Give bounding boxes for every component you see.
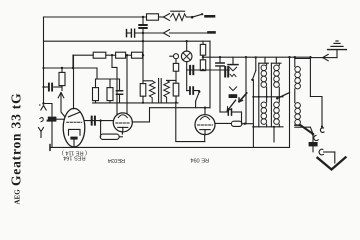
- wire x210 drop: [209, 41, 211, 108]
- antenna/earth symbol top right: [328, 49, 347, 51]
- V3 grid dashes: [198, 124, 213, 126]
- tube V1 RES164 (oval): [63, 108, 85, 147]
- winding L5b (loops): [295, 103, 301, 125]
- switch S1: [191, 16, 194, 19]
- arrow (variable): [227, 100, 235, 111]
- IF core: [159, 79, 162, 103]
- wire step x112-x117 to tube2: [112, 55, 117, 115]
- wire x176 column: [175, 59, 177, 83]
- wire x176 down to tube3 cathode: [175, 96, 177, 103]
- resistor R5: [132, 52, 143, 58]
- winding L3b (loops): [278, 63, 280, 65]
- capacitor C5: [116, 91, 122, 95]
- node H4 x288.5: [288, 56, 290, 58]
- svg-text:RE034: RE034: [108, 157, 125, 163]
- wire row55 left leg: [72, 55, 74, 68]
- wire corner x97: [96, 68, 98, 79]
- node L3 x143: [142, 102, 144, 104]
- V2 grid dashes: [116, 122, 130, 124]
- capacitor C8 (filled): [190, 66, 193, 74]
- title AEG Geatron 33tG: [9, 93, 24, 205]
- hook contacts: [314, 135, 318, 140]
- node x100.6: [99, 119, 101, 121]
- node H4 x203: [202, 56, 204, 58]
- wire bottom bus y147.4: [50, 146, 290, 148]
- wire H5 y70: [187, 69, 230, 71]
- wire x127 to tube2: [126, 55, 128, 114]
- capacitor C2 (horizontal): [131, 29, 134, 37]
- node H1/C1 junction: [142, 16, 144, 18]
- legs lower: [259, 97, 272, 127]
- wire bus to C4: [44, 104, 53, 117]
- V3 top cup: [200, 117, 209, 120]
- node H3 x143: [142, 40, 144, 42]
- resistor R7: [107, 88, 113, 101]
- arrow terminal A2: [164, 30, 170, 37]
- antenna coil block legs: [295, 58, 311, 60]
- wire V1 anode to tube2 grid: [85, 120, 114, 122]
- lamp X1: [186, 41, 188, 51]
- node y107.7 x205: [204, 107, 206, 109]
- wire C4 to V1 grid: [56, 118, 64, 120]
- V3 cathode: [200, 129, 210, 131]
- wire top feed x73 into V1: [73, 55, 75, 109]
- resistor R15 (cathode, rounded): [100, 134, 119, 139]
- wire column x246: [245, 57, 247, 124]
- node H4 x294.8: [294, 56, 296, 58]
- wire bottom right coil: [295, 126, 311, 128]
- V1 anode plate (diagonal): [69, 112, 81, 117]
- IF primary winding L1 (zigzag): [149, 81, 155, 103]
- V1 filament bar: [70, 137, 77, 140]
- winding L5a (loops): [295, 67, 301, 89]
- node H2 x143: [142, 32, 144, 34]
- capacitor C3 (y87, filled): [44, 86, 48, 88]
- jog to contact x322: [310, 97, 322, 127]
- switch S2: [198, 91, 200, 93]
- wire to antenna with arrow: [324, 57, 337, 59]
- wire rail H4 y57.2: [203, 56, 311, 58]
- resistor R3: [93, 52, 106, 58]
- wire y107.7 rail: [150, 107, 211, 109]
- wire left bus V: [43, 17, 45, 104]
- V1 cathode bracket: [69, 129, 81, 135]
- node row55 x143: [142, 54, 144, 56]
- wire cathode loop tube2: [100, 121, 102, 137]
- earth arrow (big V): [318, 157, 346, 169]
- capacitor C1 (on vertical, filled plates): [142, 17, 144, 24]
- node row55 x127: [126, 54, 128, 56]
- winding L3a (loops): [266, 63, 268, 65]
- node row55 x112: [111, 54, 113, 56]
- capacitor C11 (x220): [219, 57, 221, 62]
- terminal circle: [174, 54, 179, 59]
- node H5 x203: [202, 69, 204, 71]
- tube V3 RE094 (circle): [195, 115, 215, 135]
- wire rail H3: [44, 40, 211, 42]
- resistor R1: [147, 14, 159, 20]
- node H4 x248: [245, 56, 247, 58]
- leg 1: [258, 63, 260, 97]
- resistor R6: [93, 88, 99, 101]
- label RE 094: [190, 156, 209, 162]
- resistor R11: [173, 63, 178, 71]
- node H4 x310.5: [309, 56, 311, 58]
- output chain: capacitor C13 (filled): [312, 134, 314, 142]
- switch S3b: [251, 79, 253, 81]
- wire R1 to arrow: [159, 16, 164, 18]
- arrow terminal A1: [164, 14, 170, 21]
- node bus bottom: [42, 102, 44, 104]
- svg-text:RE 094: RE 094: [190, 156, 209, 162]
- resistor R14 (rounded): [231, 121, 242, 126]
- terminal T2 (thick stub): [209, 31, 215, 34]
- capacitor C12 (bridge over R14): [220, 111, 228, 113]
- V2 top cup: [118, 115, 127, 118]
- resistor R8 (x62 column): [61, 68, 63, 72]
- wire x186.7 down + capacitor C10 to tube3 grid: [186, 70, 188, 91]
- wire L2 y79: [96, 78, 120, 80]
- terminal T1 (thick stub): [206, 15, 215, 18]
- resistor R2 (zigzag with bar): [171, 13, 187, 20]
- switch arm (bold): [295, 124, 301, 126]
- wire x289.5 H4 to bottom bus: [289, 57, 291, 147]
- arrow (variable) A3: [239, 93, 247, 102]
- switch S4: [276, 97, 278, 99]
- svg-text:AEG: AEG: [14, 189, 22, 205]
- label RES 164 (RE 114): [62, 150, 87, 161]
- svg-text:Geatron 33 tG: Geatron 33 tG: [9, 93, 24, 186]
- wire bottom y126.8: [253, 126, 283, 128]
- wire x143 to IF box: [142, 41, 144, 83]
- wire y68 line: [44, 67, 98, 69]
- IF secondary winding L2 (zigzag): [164, 80, 170, 102]
- wire row55: [73, 54, 93, 56]
- winding L4b (loops): [278, 97, 280, 102]
- wire y123.5 tube3 anode: [215, 122, 231, 124]
- node y68 x73: [72, 67, 74, 69]
- arrow (wiper) into tube V1: [58, 93, 64, 98]
- resistor R12 / R13 column x203: [202, 41, 204, 44]
- resistor R4: [116, 52, 126, 58]
- wire mid y96.8: [253, 96, 283, 98]
- winding L4a (loops): [266, 97, 268, 102]
- node V bus y68: [42, 67, 44, 69]
- jack fork: [39, 128, 44, 138]
- tube V2 RE034 (circle): [113, 113, 132, 132]
- bracket 2: [271, 62, 281, 64]
- resistor R10: [173, 83, 179, 96]
- IF transformer: resistor R9: [140, 84, 146, 97]
- capacitor C4 (filled block): [48, 117, 57, 122]
- node L3 x176: [175, 101, 177, 103]
- node H3 lamp: [186, 40, 188, 42]
- V2 cathode: [118, 126, 128, 128]
- wire tube3 cathode riser: [273, 127, 275, 142]
- wire L3 y102.7: [93, 102, 179, 104]
- node V bus y87: [42, 86, 44, 88]
- node H4 x220: [219, 56, 221, 58]
- jack mark: [40, 117, 43, 121]
- trimmer chain x233: [232, 57, 234, 64]
- wire top rail H1: [44, 16, 147, 18]
- wire H2 with terminal bar: [126, 30, 128, 37]
- leg 2: [270, 63, 272, 97]
- svg-text:RES 164: RES 164: [63, 155, 85, 161]
- wire tube2 anode to y107.7 rail: [132, 108, 149, 122]
- jack arrow (plug): [41, 106, 46, 111]
- oscillator coil block: bracket 1: [259, 62, 269, 64]
- capacitor C6 (filled coupling): [92, 117, 95, 125]
- wire left column x255.8: [255, 57, 257, 70]
- label RE034: [108, 157, 125, 163]
- capacitor C9 (filled): [225, 67, 228, 77]
- V1 grid (dashed): [67, 121, 82, 123]
- node y68 x62: [61, 67, 63, 69]
